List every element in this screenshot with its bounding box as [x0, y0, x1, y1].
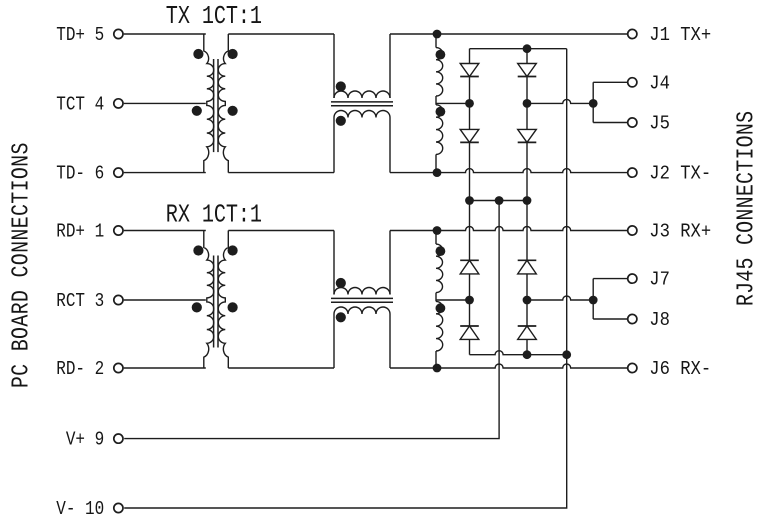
wire fork to terminal J5: [593, 122, 628, 124]
transformer T1 (TX) core: [214, 59, 218, 152]
center-tapped choke L4 (RX) polarity dot (top half): [436, 246, 446, 256]
terminal J5: [628, 118, 637, 127]
svg-text:TCT 4: TCT 4: [56, 94, 104, 116]
transformer T2 (RX) secondary polarity dot (bottom half): [228, 302, 238, 312]
junction: D2 cathode on V+ bus: [465, 196, 474, 205]
svg-text:V+ 9: V+ 9: [66, 429, 104, 451]
diode D3 (TX upper, column 2): [518, 49, 537, 104]
transformer T1 (TX) primary polarity dot (bottom half): [192, 106, 202, 116]
common-mode choke L1 (TX) bottom winding polarity dot: [336, 116, 346, 126]
svg-text:RD+ 1: RD+ 1: [56, 221, 104, 243]
wire TX mid node to J4/J5 fork (hops over V- bus): [527, 99, 593, 103]
terminal V+ (pin 9): [114, 434, 123, 443]
junction: D8 anode on V- node wire: [523, 350, 532, 359]
center-tapped choke L3 (TX) polarity dot (bottom half): [436, 107, 446, 117]
svg-text:RJ45 CONNECTIONS: RJ45 CONNECTIONS: [733, 111, 760, 306]
terminal J6: [628, 363, 637, 372]
diode D2 (TX lower, column 1): [460, 103, 479, 200]
svg-text:J6 RX-: J6 RX-: [649, 359, 711, 380]
terminal TD- (pin 6): [114, 168, 123, 177]
wire RCT center tap to T2 primary: [124, 299, 206, 301]
terminal TD+ (pin 5): [114, 29, 123, 38]
wire TD- to T1 primary bottom: [124, 172, 206, 174]
wire choke L3 center tap to diode D1/D2 midpoint: [436, 102, 470, 104]
transformer T1 (TX) primary winding (pins top/center-tap/bottom): [204, 34, 214, 173]
terminal J4: [628, 78, 637, 87]
junction: J4/J5 fork: [589, 99, 598, 108]
svg-text:TD- 6: TD- 6: [56, 163, 104, 185]
wire choke L4 center tap to diode D5/D6 midpoint: [436, 299, 470, 301]
wire V- bus: vertical from TX clamp top bus down, then left to terminal V- 10: [124, 49, 567, 508]
diode D7 (RX upper, column 2): [518, 201, 537, 301]
diode D4 (TX lower, column 2): [518, 103, 537, 200]
terminal RD+ (pin 1): [114, 226, 123, 235]
center-tapped choke L4 (RX) polarity dot (bottom half): [436, 303, 446, 313]
diode D5 (RX upper, column 1): [460, 201, 479, 301]
center-tapped choke L3 (TX) winding: [436, 34, 443, 173]
svg-text:TD+ 5: TD+ 5: [56, 25, 104, 47]
terminal TCT (pin 4): [114, 99, 123, 108]
junction: V+ bus vertical tap: [495, 196, 504, 205]
terminal J1: [628, 29, 637, 38]
terminal J2: [628, 168, 637, 177]
terminal J3: [628, 226, 637, 235]
wire TX clamp bottom bus (D2/D4 cathodes) = V+ node: [470, 200, 528, 202]
terminal J8: [628, 314, 637, 323]
common-mode choke L1 (TX) top winding polarity dot: [336, 81, 346, 91]
common-mode choke L1 (TX) bottom winding: [334, 111, 390, 173]
junction: D4 cathode on V+ bus: [523, 196, 532, 205]
terminal V- (pin 10): [114, 503, 123, 512]
wire / rail RX+ : choke L4 top to terminal J3 (hops over diode columns, V+ and V- buses): [390, 227, 628, 231]
center-tapped choke L3 (TX) polarity dot (top half): [436, 50, 446, 60]
wire / rail TX- : choke L3 bottom to terminal J2 (hops over diode columns and V- bus): [390, 169, 628, 173]
svg-text:RD- 2: RD- 2: [56, 359, 104, 381]
svg-text:TX 1CT:1: TX 1CT:1: [166, 2, 262, 31]
transformer T2 (RX) primary polarity dot (top half): [193, 245, 203, 255]
wire T2 secondary bottom to common-mode choke L2: [228, 367, 334, 369]
wire fork to terminal J7: [593, 278, 628, 280]
transformer T1 (TX) secondary winding: [218, 34, 228, 173]
junction: D1 cathode / D2 anode / center tap node: [465, 99, 474, 108]
svg-text:J7: J7: [649, 270, 670, 291]
common-mode choke L1 (TX) top winding: [334, 34, 390, 98]
wire fork vertical J4-J5: [592, 82, 594, 122]
junction: D3 anode on clamp top bus: [523, 44, 532, 53]
common-mode choke L2 (RX) bottom winding: [334, 307, 390, 368]
terminal RCT (pin 3): [114, 295, 123, 304]
wire TD+ to transformer T1 primary top: [124, 33, 206, 35]
transformer T1 (TX) primary polarity dot (top half): [193, 49, 203, 59]
wire / rail TX+ : choke L3 top to terminal J1: [390, 33, 628, 35]
junction: D3 cathode / D4 anode / wire to J4-J5 fork: [523, 99, 532, 108]
common-mode choke L2 (RX) top winding: [334, 231, 390, 295]
center-tapped choke L4 (RX) winding: [436, 231, 443, 369]
junction: TX+ rail to choke L3 top: [433, 30, 442, 39]
wire RD- to T2 primary bottom: [124, 367, 206, 369]
wire V+ bus: vertical from TX clamp bottom bus down, then left to terminal V+ 9: [124, 201, 499, 439]
svg-text:RCT 3: RCT 3: [56, 291, 104, 313]
wire TCT center tap to T1 primary: [124, 102, 206, 104]
common-mode choke L2 (RX) bottom winding polarity dot: [336, 312, 346, 322]
transformer T2 (RX) secondary winding: [218, 231, 228, 369]
wire / rail RX- : choke L4 bottom to terminal J6 (hops over V+ and V- buses): [390, 364, 628, 368]
wire RX clamp bottom bus (D6/D8 anodes) = V- node (hops over V+ bus): [470, 351, 567, 355]
svg-text:V- 10: V- 10: [56, 499, 104, 521]
wire RD+ to transformer T2 primary top: [124, 230, 206, 232]
wire T1 secondary bottom to common-mode choke L1: [228, 172, 334, 174]
svg-text:RX 1CT:1: RX 1CT:1: [166, 201, 262, 230]
junction: TX- rail to choke L3 bottom: [433, 168, 442, 177]
common-mode choke L1 (TX) core: [331, 102, 393, 106]
transformer T1 (TX) secondary polarity dot (bottom half): [228, 106, 238, 116]
transformer T1 (TX) secondary polarity dot (top half): [228, 49, 238, 59]
junction: V- bus meets RX clamp bottom bus: [562, 350, 571, 359]
junction: RX- rail to choke L4 bottom: [433, 364, 442, 373]
wire fork to terminal J8: [593, 318, 628, 320]
svg-text:PC BOARD CONNECTIONS: PC BOARD CONNECTIONS: [8, 142, 35, 388]
svg-text:J3 RX+: J3 RX+: [649, 222, 711, 243]
transformer T2 (RX) primary winding (pins top/center-tap/bottom): [204, 231, 214, 369]
transformer T2 (RX) core: [214, 256, 218, 348]
common-mode choke L2 (RX) core: [331, 298, 393, 302]
wire TX clamp top bus: D1/D3 anodes, corner to V- bus: [470, 48, 567, 50]
junction: RX+ rail to choke L4 top: [433, 226, 442, 235]
wire T2 secondary top to common-mode choke L2: [228, 230, 334, 232]
svg-text:J5: J5: [649, 114, 670, 135]
svg-text:J4: J4: [649, 74, 670, 95]
wire T1 secondary top to common-mode choke L1: [228, 33, 334, 35]
junction: D7 anode / D8 cathode / wire to J7-J8 fork: [523, 296, 532, 305]
terminal RD- (pin 2): [114, 363, 123, 372]
transformer T2 (RX) primary polarity dot (bottom half): [192, 302, 202, 312]
svg-text:J2 TX-: J2 TX-: [649, 164, 711, 185]
transformer T2 (RX) secondary polarity dot (top half): [228, 245, 238, 255]
wire RX mid node to J7/J8 fork (hops over V- bus): [527, 296, 593, 300]
wire fork vertical J7-J8: [592, 279, 594, 319]
svg-text:J8: J8: [649, 310, 670, 331]
svg-text:J1 TX+: J1 TX+: [649, 25, 711, 46]
diode D6 (RX lower, column 1): [460, 300, 479, 355]
wire fork to terminal J4: [593, 81, 628, 83]
diode D1 (TX upper, column 1): [460, 49, 479, 104]
junction: D5 anode / D6 cathode / RX center tap node: [465, 296, 474, 305]
diode D8 (RX lower, column 2): [518, 300, 537, 355]
terminal J7: [628, 274, 637, 283]
common-mode choke L2 (RX) top winding polarity dot: [336, 278, 346, 288]
junction: J7/J8 fork: [589, 296, 598, 305]
